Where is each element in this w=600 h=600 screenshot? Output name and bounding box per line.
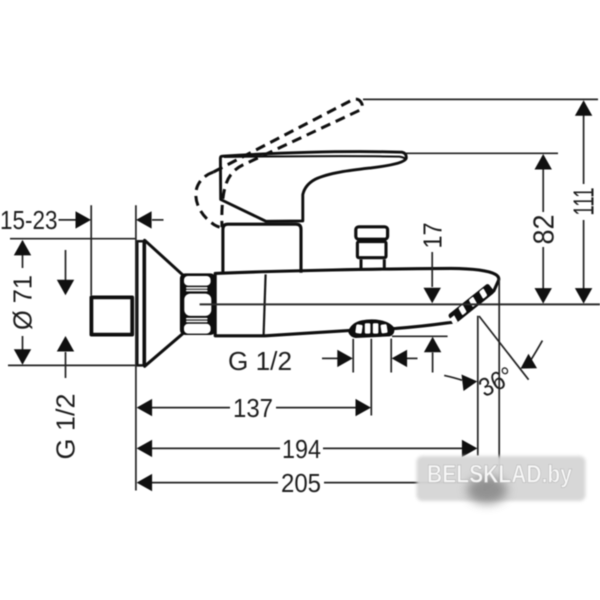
36 arc right	[531, 341, 542, 360]
G12 left stem	[65, 250, 67, 280]
svg-text:194: 194	[282, 434, 321, 464]
svg-text:111: 111	[569, 188, 600, 216]
diverter knob cap	[356, 227, 388, 239]
knurled nut	[180, 273, 216, 335]
111 arrows	[575, 100, 592, 116]
diverter knob neck	[360, 259, 363, 270]
watermark	[417, 456, 586, 504]
svg-text:G 1/2: G 1/2	[228, 346, 292, 376]
36 angled line	[479, 316, 529, 380]
O71 arrows	[14, 240, 31, 256]
bump ext lines	[352, 339, 354, 373]
205 arrows	[137, 474, 153, 491]
aerator band	[446, 283, 495, 325]
svg-text:15-23: 15-23	[0, 205, 58, 235]
17 arrows	[424, 288, 441, 304]
svg-text:82: 82	[529, 215, 561, 245]
dim 205 line	[152, 482, 278, 484]
svg-text:137: 137	[233, 393, 273, 423]
lever handle solid	[220, 152, 406, 222]
dim 111 stem	[583, 115, 585, 185]
body joint line	[264, 274, 266, 334]
ext spout tip	[498, 279, 500, 483]
36 arc left	[444, 375, 462, 380]
dim 111 ref	[363, 98, 598, 100]
dim 15-23 leader	[59, 219, 77, 221]
diverter knob mid	[357, 242, 386, 258]
cartridge housing	[223, 224, 301, 273]
dim 194 line	[152, 447, 280, 449]
svg-text:Ø 71: Ø 71	[8, 275, 38, 330]
svg-text:G 1/2: G 1/2	[51, 394, 81, 460]
supply block	[91, 297, 132, 334]
escutcheon plate	[137, 241, 143, 365]
ext line block left	[90, 205, 92, 295]
82 arrows	[535, 154, 552, 170]
ext aerator / 36 vertical	[477, 316, 479, 456]
svg-text:BELSKLAD.by: BELSKLAD.by	[427, 461, 572, 489]
dim 137 line	[152, 407, 230, 409]
G12 bottom leaders	[322, 357, 338, 359]
194 arrows	[137, 440, 153, 457]
dim 82 ref	[406, 152, 558, 154]
137 arrows	[137, 399, 153, 416]
shower outlet bump	[348, 319, 394, 338]
lever handle raised (dashed)	[214, 99, 363, 227]
svg-text:205: 205	[281, 468, 321, 498]
G12 left arrows	[57, 280, 74, 296]
dim O71 refs	[10, 238, 135, 240]
dim 17 lower ref	[392, 335, 448, 337]
escutcheon cone	[145, 240, 183, 366]
dim O71 stem	[22, 241, 24, 268]
dim 17 stem	[431, 252, 433, 287]
ext line wall	[135, 205, 137, 490]
dim 82 stem	[542, 168, 544, 212]
15-23 arrows	[76, 211, 92, 228]
svg-text:17: 17	[418, 223, 448, 249]
faucet body	[215, 268, 499, 335]
36 arc arrows	[462, 375, 478, 392]
center axis line	[200, 303, 600, 305]
G12 bottom arrows	[337, 350, 353, 367]
lever inner top line	[224, 156, 405, 158]
